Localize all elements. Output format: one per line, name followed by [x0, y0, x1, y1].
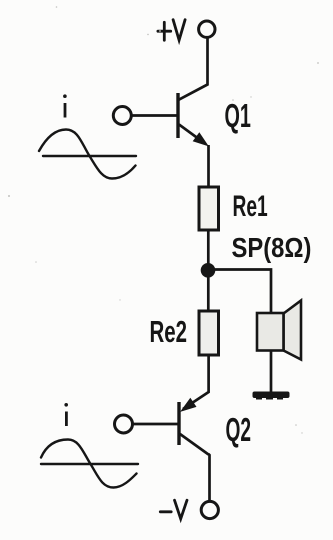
- label i (top): [63, 94, 67, 117]
- terminal -V: [201, 501, 218, 518]
- label Re1: [233, 190, 268, 223]
- label i (bottom): [64, 403, 68, 426]
- wire speaker to ground: [270, 351, 273, 392]
- ground: [253, 392, 290, 400]
- label Q1: [225, 97, 251, 135]
- wire emitter Q1 to Re1: [207, 145, 210, 187]
- label SP(8ohm): [232, 231, 312, 263]
- label Re2: [150, 314, 188, 349]
- terminal +V: [199, 21, 215, 37]
- transistor Q2: [179, 399, 209, 454]
- label -V: [160, 500, 187, 519]
- wire Re1 to node: [207, 230, 210, 264]
- svg-text:Re1: Re1: [233, 190, 268, 223]
- resistor Re2: [199, 311, 219, 355]
- wire base Q1: [132, 114, 178, 117]
- scan speckles: [8, 6, 319, 433]
- svg-text:Q2: Q2: [226, 412, 252, 449]
- source sine (top): [39, 130, 136, 179]
- svg-text:Q1: Q1: [225, 97, 251, 135]
- source sine (bottom): [41, 440, 138, 488]
- label Q2: [226, 412, 252, 449]
- terminal input Q2: [115, 415, 133, 433]
- transistor Q1: [178, 93, 207, 145]
- wire Re2 to emitter Q2: [183, 355, 209, 409]
- wire node to speaker: [214, 270, 271, 314]
- speaker SP: [257, 301, 301, 360]
- terminal input Q1: [113, 107, 131, 125]
- svg-text:SP(8Ω): SP(8Ω): [232, 231, 312, 263]
- wire node to Re2: [207, 276, 210, 311]
- wire base Q2: [133, 423, 178, 426]
- node SP junction: [201, 263, 216, 278]
- svg-text:Re2: Re2: [150, 314, 188, 349]
- wire collector Q2 to -V: [209, 454, 210, 501]
- wire collector Q1: [179, 38, 208, 100]
- label +V: [158, 20, 185, 41]
- resistor Re1: [199, 187, 219, 230]
